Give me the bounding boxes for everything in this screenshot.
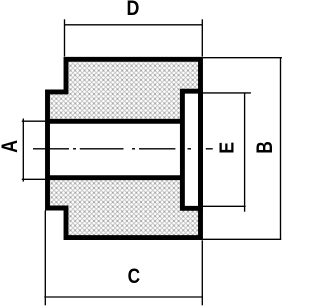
- dimension E line: [244, 93, 246, 212]
- dimension B extension line bottom: [203, 238, 281, 240]
- bore bottom wall: [46, 175, 182, 180]
- dimension B extension line top: [203, 57, 282, 59]
- svg-text:C: C: [128, 264, 140, 288]
- dimension D extension line left: [64, 19, 66, 56]
- svg-text:A: A: [0, 140, 23, 153]
- dimension C extension line right: [201, 240, 203, 305]
- part outer profile (body with left flange step): [48, 59, 201, 237]
- bore top wall: [46, 119, 182, 124]
- svg-text:B: B: [253, 141, 278, 153]
- dimension A extension line bottom: [22, 178, 45, 180]
- dimension E extension line top: [203, 92, 251, 94]
- dimension C extension line left: [44, 211, 46, 306]
- dimension B line: [280, 58, 282, 240]
- dimension C line: [44, 296, 203, 298]
- internal groove outline: [182, 91, 200, 208]
- dimension A line: [22, 119, 24, 182]
- dimension D extension line right: [201, 19, 203, 56]
- centerline (dash-dot axis): [33, 148, 213, 150]
- dimension E extension line bottom: [203, 205, 246, 207]
- svg-text:E: E: [215, 142, 237, 154]
- cross-section hatch fill (body + left flange minus bore minus right groove): [48, 59, 201, 237]
- svg-text:D: D: [127, 0, 140, 20]
- dimension D line: [65, 24, 203, 26]
- dimension A extension line top: [22, 120, 45, 122]
